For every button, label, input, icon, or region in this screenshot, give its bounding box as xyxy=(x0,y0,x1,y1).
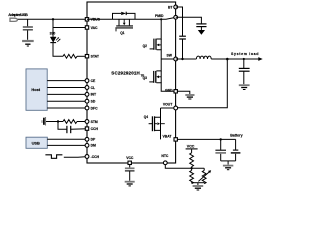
wire system load rail xyxy=(211,58,258,60)
pin VBUS xyxy=(85,18,88,21)
wire USB DP xyxy=(47,138,87,140)
pin VCC bottom xyxy=(128,161,131,164)
ground for C7 xyxy=(125,182,135,186)
capacitor C6 battery bypass xyxy=(215,139,226,161)
wire BT to bootstrap cap xyxy=(176,7,183,36)
transistor Q2 high-side FET xyxy=(150,19,162,59)
pin host1 xyxy=(85,79,89,83)
wire SW to inductor xyxy=(176,58,197,60)
wire LED to resistor xyxy=(53,43,63,56)
node junction at adapter wire xyxy=(52,18,54,20)
svg-text:Adapter/USB: Adapter/USB xyxy=(8,12,28,17)
svg-text:Q3: Q3 xyxy=(143,76,147,80)
svg-text:CE: CE xyxy=(91,79,96,83)
node internal rail to Q2 drain xyxy=(160,18,162,20)
wire VBAT to battery xyxy=(178,138,236,140)
ground for NTC network xyxy=(193,186,204,190)
resistor R2 compensation xyxy=(63,120,77,124)
wire adapter to VBUS pin xyxy=(18,18,87,20)
ground for GND pin xyxy=(185,95,194,99)
node riser junction xyxy=(226,58,229,61)
pin STAT xyxy=(85,55,88,58)
svg-text:VBAT: VBAT xyxy=(163,134,173,138)
wire NTC pin to divider xyxy=(165,165,204,169)
VCC rail symbol xyxy=(186,144,198,152)
transistor Q1 input blocking FET xyxy=(115,19,133,31)
wire battery bottom bus xyxy=(221,160,236,162)
pin VAC xyxy=(85,26,88,29)
resistor R1 to STAT pin xyxy=(63,54,77,58)
IC U1 body SC2929201H xyxy=(87,2,176,163)
pin DP xyxy=(85,137,89,141)
inductor L1 xyxy=(196,56,211,59)
svg-text:-CCH: -CCH xyxy=(91,155,100,159)
svg-text:SW: SW xyxy=(167,53,173,57)
svg-text:STAT: STAT xyxy=(91,55,100,59)
svg-text:Q4: Q4 xyxy=(144,115,148,119)
internal VOUT rail xyxy=(161,107,176,109)
wire host line 3 xyxy=(47,93,87,95)
diode D2 body diode of Q1 xyxy=(113,12,136,20)
wire R2 to pin xyxy=(77,121,87,123)
svg-text:VCC: VCC xyxy=(187,144,195,148)
wire pulse to pin xyxy=(64,156,87,159)
pin ITM xyxy=(85,120,89,124)
svg-text:USB: USB xyxy=(32,140,40,145)
capacitor C4 PMID xyxy=(196,24,206,27)
transistor Q4 battery FET xyxy=(149,108,165,139)
wire bus to ground xyxy=(227,161,229,165)
svg-text:VAC: VAC xyxy=(91,26,98,30)
pin SW xyxy=(174,57,178,61)
ground arrow for C4 xyxy=(198,27,205,35)
pin CEN xyxy=(85,155,89,159)
svg-text:INT: INT xyxy=(91,93,97,97)
pin host5 xyxy=(85,106,89,110)
wire VAC branch xyxy=(53,19,87,27)
node SW bootstrap junction xyxy=(181,58,183,60)
pin NTC bottom xyxy=(163,161,167,165)
wire thermistor bottom bus xyxy=(192,182,205,184)
arrow system load xyxy=(258,57,262,61)
svg-text:CCH: CCH xyxy=(91,127,99,131)
wire R3 to junction xyxy=(191,167,193,169)
svg-text:SC2929201H: SC2929201H xyxy=(111,71,140,76)
svg-text:PMID: PMID xyxy=(155,14,164,18)
wire comp ground to junction xyxy=(46,121,63,123)
pin GND xyxy=(174,90,177,93)
svg-text:DM: DM xyxy=(91,144,96,148)
svg-text:CL: CL xyxy=(91,86,96,90)
capacitor C1 input cap xyxy=(23,19,33,40)
pulse waveform symbol xyxy=(45,155,62,159)
ground for C1 xyxy=(22,41,34,46)
IC part number label SC2929201H xyxy=(111,71,144,78)
svg-text:Host: Host xyxy=(31,87,40,92)
svg-text:Q1: Q1 xyxy=(120,31,124,35)
svg-text:System load: System load xyxy=(231,52,259,56)
wire USB DM xyxy=(47,144,87,146)
capacitor C3 bootstrap xyxy=(179,36,186,39)
LED D1 xyxy=(50,37,60,43)
wire VOUT to system rail riser xyxy=(178,59,228,108)
resistor R4 NTC parallel xyxy=(190,168,194,183)
pin host3 xyxy=(85,93,89,97)
wire host line 4 xyxy=(47,100,87,102)
internal top rail VBUS to PMID xyxy=(87,17,176,19)
wire comp junction down to C2 xyxy=(58,122,67,130)
battery BT1 cell xyxy=(231,139,241,161)
pin CCH xyxy=(85,127,88,130)
pin BT xyxy=(174,5,178,9)
svg-text:330: 330 xyxy=(50,31,56,35)
transistor Q3 low-side FET xyxy=(149,59,175,91)
right pin labels xyxy=(126,6,173,160)
ground for battery xyxy=(223,166,233,170)
capacitor C5 system xyxy=(239,59,250,84)
svg-text:VCC: VCC xyxy=(126,156,134,160)
ground for C5 xyxy=(239,85,250,89)
thermistor RT1 xyxy=(198,168,211,183)
wire PMID to C4 xyxy=(176,17,202,23)
svg-text:STM: STM xyxy=(91,120,98,124)
svg-text:Battery: Battery xyxy=(230,133,242,137)
svg-text:DFC: DFC xyxy=(91,106,99,110)
connector J1 Adapter/USB plug xyxy=(8,12,28,21)
wire GND pin to ground xyxy=(178,91,190,94)
capacitor C2 compensation xyxy=(67,126,71,133)
node comp junction xyxy=(57,120,59,122)
pin VOUT xyxy=(174,106,178,110)
Host block xyxy=(26,69,47,110)
svg-text:SD: SD xyxy=(91,100,96,104)
wire host line 1 xyxy=(47,80,87,82)
pin host2 xyxy=(85,86,89,90)
node output cap junction xyxy=(243,58,245,60)
node NTC junction xyxy=(190,167,192,169)
pin host4 xyxy=(85,99,89,103)
wire bus to NTC ground xyxy=(197,183,199,185)
USB block xyxy=(26,137,47,148)
capacitor C7 VCC xyxy=(125,168,135,181)
wire host line 5 xyxy=(47,107,87,109)
node battery junction xyxy=(220,138,222,140)
internal SW rail xyxy=(161,58,175,60)
pin VBAT xyxy=(174,138,177,141)
ground sideways for compensation network xyxy=(42,117,46,126)
wire resistor to STAT pin xyxy=(77,55,87,57)
wire host line 2 xyxy=(47,87,87,89)
wire C2 to pin xyxy=(71,128,87,131)
wire LED branch down xyxy=(52,28,54,37)
svg-text:VOUT: VOUT xyxy=(163,103,173,107)
svg-text:Q2: Q2 xyxy=(143,44,147,48)
wire bootstrap cap to SW rail xyxy=(182,39,184,59)
svg-text:DP: DP xyxy=(91,138,96,142)
wire VCC pin to C7 xyxy=(129,165,131,168)
pin PMID xyxy=(174,15,178,19)
resistor R3 NTC pullup xyxy=(190,153,194,167)
left pin labels xyxy=(91,18,101,159)
svg-text:NTC: NTC xyxy=(161,154,169,158)
pin DM xyxy=(85,144,89,148)
svg-text:GND: GND xyxy=(165,88,173,92)
